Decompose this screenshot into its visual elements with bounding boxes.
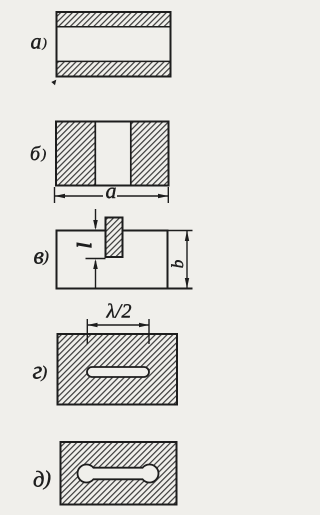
- arrowhead left a: [55, 194, 66, 198]
- svg-text:д: д: [33, 467, 44, 492]
- bottom wall inner line A: [57, 60, 171, 62]
- upper arrow line l: [95, 209, 97, 228]
- paper background: [0, 0, 200, 515]
- dumbbell slot D: [78, 465, 159, 483]
- slot right edge B: [130, 122, 132, 186]
- svg-text:а: а: [31, 29, 42, 54]
- pointer mark at lower-left corner A: [51, 80, 56, 86]
- dim extension left B: [54, 187, 56, 203]
- waveguide body A: [57, 12, 171, 77]
- top extension line V: [168, 230, 193, 232]
- probe body V: [106, 218, 123, 258]
- svg-text:l: l: [74, 242, 96, 248]
- top wall hatch A: [58, 13, 170, 27]
- svg-text:a: a: [106, 178, 117, 203]
- svg-text:б: б: [30, 143, 41, 165]
- dim line lambda/2: [87, 324, 149, 326]
- upper arrowhead l: [93, 220, 98, 230]
- bottom line extension V: [56, 288, 193, 290]
- svg-text:): ): [43, 249, 49, 266]
- arrowhead right G: [139, 323, 149, 327]
- dim extension right G: [148, 319, 150, 344]
- arrowhead right a: [158, 194, 168, 198]
- dim extension right B: [167, 187, 169, 203]
- svg-text:): ): [41, 363, 48, 382]
- dim line a: [55, 195, 103, 197]
- block body D: [61, 442, 177, 505]
- lower arrowhead l: [93, 259, 98, 269]
- b dim line: [186, 231, 188, 288]
- slot left edge B: [94, 122, 96, 186]
- left hatch B: [57, 123, 95, 185]
- svg-text:): ): [43, 466, 51, 490]
- right hatch B: [132, 123, 169, 185]
- svg-text:λ/2: λ/2: [106, 301, 132, 323]
- svg-text:в: в: [34, 244, 44, 270]
- probe hatch V: [107, 219, 122, 257]
- block body B: [56, 122, 169, 186]
- tick probe bottom l: [86, 258, 106, 260]
- arrowhead left G: [87, 323, 97, 327]
- waveguide body V: [57, 231, 168, 289]
- svg-text:b: b: [168, 260, 187, 269]
- bottom wall hatch A: [58, 62, 170, 76]
- lower arrow line l: [95, 261, 97, 289]
- slot G: [87, 367, 149, 377]
- svg-text:): ): [42, 35, 47, 50]
- block body G: [58, 334, 178, 405]
- b arrowhead top: [185, 231, 189, 242]
- dim extension left G: [86, 319, 88, 344]
- svg-text:): ): [41, 148, 47, 163]
- b arrowhead bottom: [185, 278, 189, 289]
- top wall inner line A: [57, 26, 171, 28]
